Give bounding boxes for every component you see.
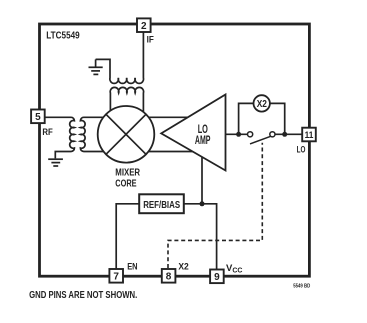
svg-text:RF: RF (42, 127, 53, 138)
pin 7 (109, 269, 123, 283)
wire mixer core to LO amp (bottom) (146, 151, 198, 153)
ground (IF side) (89, 59, 103, 74)
REF/BIAS block (139, 194, 184, 213)
op-amp triangle LO AMP (161, 95, 225, 171)
svg-text:GND PINS ARE NOT SHOWN.: GND PINS ARE NOT SHOWN. (29, 290, 137, 301)
wire REF/BIAS right to pin 9 (VCC) (184, 204, 217, 270)
pin 8 (162, 269, 176, 283)
wire pin2 to IF transformer primary (with coil loops) (96, 32, 144, 83)
svg-text:LO: LO (297, 145, 306, 156)
node (junction dot right) (282, 132, 287, 137)
svg-text:MIXER: MIXER (115, 168, 140, 179)
mixer core circle with X (98, 106, 155, 163)
wire LO amp bottom output down to ref/bias node (201, 156, 203, 204)
pin 2 (137, 18, 151, 32)
svg-text:LTC5549: LTC5549 (46, 30, 80, 41)
svg-text:7: 7 (113, 272, 119, 283)
svg-text:X2: X2 (257, 99, 268, 110)
svg-text:11: 11 (305, 130, 314, 141)
svg-text:EN: EN (127, 261, 138, 272)
svg-text:5: 5 (35, 112, 41, 123)
frequency doubler X2 (254, 95, 270, 111)
svg-text:IF: IF (147, 34, 154, 45)
dashed control line from pin 8 (X2) to switch (168, 143, 262, 268)
wire pin5 to RF transformer primary (vertical coil) (45, 117, 74, 158)
svg-text:5549 BD: 5549 BD (293, 284, 310, 290)
wire LO amp output to switch (left segment) (226, 133, 248, 135)
switch blade (250, 136, 271, 144)
switch contacts (open circles) (248, 132, 253, 137)
RF transformer secondary winding + wires to mixer core (80, 117, 104, 151)
svg-text:AMP: AMP (195, 135, 211, 147)
X2 doubler bypass: left branch (239, 103, 254, 134)
wire switch to pin 11 (right segment) (275, 133, 302, 135)
wire REF/BIAS left to pin 7 (EN) (116, 204, 139, 269)
node (junction dot at REF/BIAS output) (200, 201, 205, 206)
svg-text:2: 2 (141, 21, 147, 32)
wire mixer core to LO amp (top) (146, 116, 195, 118)
outer block border (40, 24, 310, 276)
svg-text:X2: X2 (178, 261, 188, 272)
svg-text:LO: LO (198, 124, 208, 136)
svg-text:9: 9 (214, 272, 220, 283)
pin 5 (31, 110, 45, 124)
pin 11 (302, 128, 316, 142)
IF transformer secondary winding (110, 87, 143, 112)
X2 doubler bypass: right branch (270, 103, 285, 134)
ground (RF side) (48, 159, 63, 166)
svg-text:REF/BIAS: REF/BIAS (143, 200, 180, 211)
svg-text:8: 8 (166, 272, 172, 283)
node (junction dot left) (236, 132, 241, 137)
pin 9 (210, 270, 224, 284)
svg-text:CORE: CORE (115, 178, 136, 189)
